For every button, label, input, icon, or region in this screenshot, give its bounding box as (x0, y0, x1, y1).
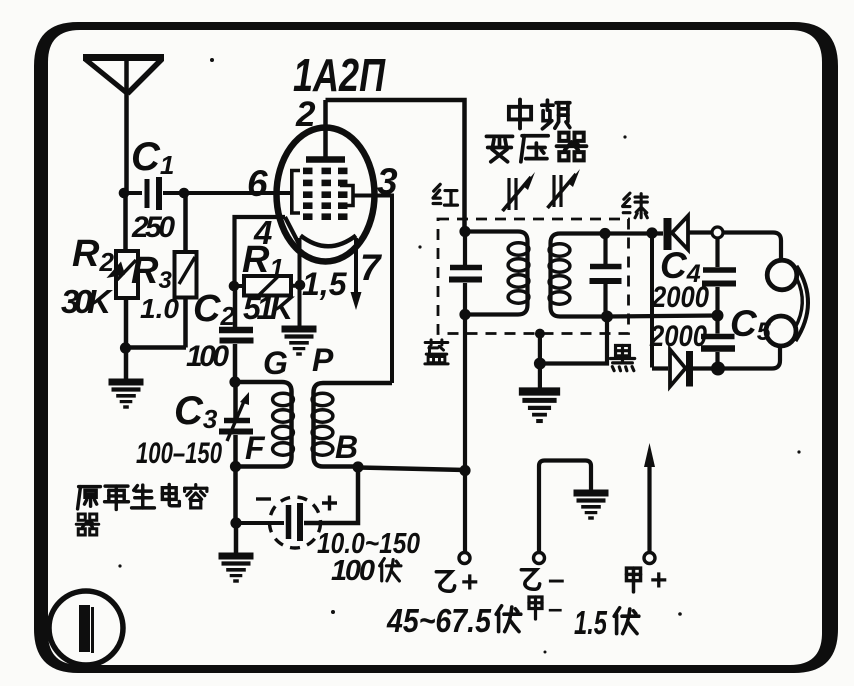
svg-text:R1: R1 (242, 239, 284, 283)
svg-text:30K: 30K (61, 283, 113, 320)
wire grid pin 6 (184, 191, 292, 195)
wire detector top rail (605, 231, 663, 235)
label 100V electrolytic (331, 555, 401, 587)
headphones (766, 260, 808, 346)
label green lead (623, 193, 648, 218)
svg-text:2000: 2000 (649, 320, 707, 353)
wire pin 3 lead (353, 196, 392, 384)
svg-text:R2: R2 (72, 233, 114, 277)
svg-text:1.5: 1.5 (574, 604, 607, 641)
label A+ terminal (626, 568, 640, 592)
wire ground stem electrolytic (234, 523, 239, 553)
svg-text:100: 100 (331, 555, 375, 587)
wire C1 right lead (163, 191, 184, 195)
label B+ terminal (436, 572, 454, 591)
wire C3 bottom lead (233, 435, 238, 467)
label A- terminal (529, 597, 542, 619)
svg-text:100–150: 100–150 (136, 437, 222, 470)
terminal A+ (644, 553, 655, 564)
label black lead (610, 345, 634, 370)
capacitor electrolytic (256, 496, 337, 549)
wire anode pin 2 lead (323, 100, 328, 160)
tube U1 envelope (277, 128, 375, 262)
svg-text:1А2П: 1А2П (293, 49, 386, 101)
label bianyaqi IF text (486, 133, 586, 162)
inductor L2 P-B coil (312, 383, 392, 467)
node junction C1 right (179, 188, 190, 199)
wire pin 4 diagonal (285, 217, 300, 245)
svg-text:C3: C3 (174, 389, 218, 434)
node junction below R2 (120, 342, 131, 353)
trimmer arrow left (503, 172, 536, 211)
svg-text:100: 100 (186, 340, 229, 373)
wire electrolytic right lead (304, 467, 358, 523)
wire R2-R3 bottom link (126, 345, 187, 350)
capacitor C1 (147, 177, 159, 210)
node junction at C1 left (119, 188, 130, 199)
capacitor C3 variable (219, 392, 253, 441)
terminal B- (534, 553, 545, 564)
wire F junction down (233, 467, 238, 524)
inductor L1 G-F coil (236, 382, 294, 467)
tube grid bracket pin 6 (292, 171, 300, 214)
ground B- (574, 493, 609, 518)
resistor R2 (107, 251, 139, 298)
inductor IF primary coil (465, 232, 529, 315)
node junction C3 bottom (230, 461, 241, 472)
svg-text:–: – (548, 563, 565, 596)
resistor R1 (234, 276, 300, 296)
wire ground stem pin 1,5 (298, 285, 302, 326)
node junction IF primary bottom (459, 309, 470, 320)
wire ground stem secondary (538, 364, 542, 389)
svg-text:+: + (650, 564, 668, 597)
wire detector left branch (650, 233, 654, 368)
label fu 1.5V (614, 608, 639, 634)
label fu 45-67.5V (496, 606, 521, 632)
label zhongpin IF text (509, 100, 570, 129)
ground below electrolytic (219, 556, 254, 581)
svg-text:R3: R3 (131, 250, 172, 294)
wire B- terminal (539, 461, 591, 553)
node junction C3 top (229, 376, 240, 387)
capacitor IF secondary (590, 234, 622, 317)
node junction detector left (646, 227, 657, 238)
wire pin 7 arrow (351, 238, 362, 310)
tube grid dashes (303, 168, 348, 220)
wire middle rail (607, 316, 718, 317)
wire antenna mast (124, 59, 129, 193)
diode D1 (668, 216, 713, 250)
node R1 right junction (295, 280, 306, 291)
wire pin 4 to R1 (235, 217, 286, 286)
node junction electrolytic left (230, 517, 241, 528)
IF transformer dashed box (438, 219, 629, 334)
wire to phones bottom (718, 347, 780, 369)
wire pin 1,5 lead (298, 238, 302, 285)
ground IF secondary (519, 392, 560, 422)
figure number circle (49, 591, 123, 665)
svg-text:250: 250 (131, 211, 175, 244)
svg-text:6: 6 (247, 163, 268, 204)
capacitor IF primary (449, 232, 482, 315)
inductor IF secondary coil (549, 234, 607, 317)
svg-text:51K: 51K (243, 290, 296, 326)
node junction on dashed edge (535, 329, 545, 339)
label regeneration capacitor text (76, 485, 207, 535)
wire to phones top (723, 233, 781, 262)
svg-text:–: – (548, 593, 562, 623)
node junction B (352, 461, 363, 472)
wire R2 bottom lead (124, 298, 129, 348)
ground below R2 (109, 382, 144, 407)
wire B to supply rail (358, 468, 465, 471)
tube grid bracket pin 3 (340, 186, 353, 206)
node junction IF secondary top (599, 228, 610, 239)
svg-text:1,5: 1,5 (302, 266, 348, 302)
capacitor C2 (219, 330, 254, 341)
node junction IF primary top (459, 226, 470, 237)
ground below pin 1,5 (282, 329, 317, 354)
wire anode to IF primary (326, 100, 465, 232)
node R1 left junction (229, 281, 240, 292)
trimmer arrow right (548, 169, 581, 208)
wire IF primary down to B+ (463, 315, 467, 553)
wire C1 left lead (124, 191, 142, 195)
node junction C4 mid (712, 310, 724, 322)
label B- terminal (521, 570, 539, 589)
tube filament arc (301, 236, 357, 247)
svg-text:1.0: 1.0 (140, 293, 179, 324)
wire ground stem (124, 348, 129, 379)
terminal B+ (459, 553, 470, 564)
wire C2 bottom lead (233, 344, 238, 382)
label blue lead (425, 340, 448, 364)
svg-text:G: G (263, 345, 288, 381)
svg-text:45~67.5: 45~67.5 (386, 602, 491, 639)
svg-text:B: B (335, 429, 358, 465)
svg-text:C1: C1 (131, 135, 174, 180)
node connector top corner (712, 227, 723, 238)
wire R3 top lead (183, 193, 188, 252)
wire A+ arrow (644, 443, 655, 552)
svg-text:2000: 2000 (651, 281, 709, 314)
svg-text:F: F (245, 430, 266, 466)
node junction B+ rail (459, 465, 470, 476)
node junction IF secondary bottom (601, 311, 613, 323)
capacitor C4 (702, 238, 736, 316)
node junction secondary ground (534, 358, 546, 370)
diode D2 (652, 350, 719, 387)
label red lead (433, 184, 457, 205)
tube anode plate bar (306, 156, 345, 163)
node junction D2 right (711, 362, 725, 376)
wire C2 top lead (233, 286, 238, 327)
svg-text:2: 2 (295, 95, 316, 134)
svg-text:C2: C2 (193, 288, 235, 331)
wire C3 top lead (233, 382, 238, 418)
wire electrolytic left lead (236, 521, 284, 525)
svg-text:7: 7 (360, 247, 383, 288)
scan speckles (118, 58, 800, 654)
wire R2 top lead (123, 193, 128, 251)
svg-text:+: + (461, 566, 479, 599)
resistor R3 (175, 252, 197, 298)
capacitor C5 lower 2000 (701, 316, 735, 369)
wire R3 bottom lead (183, 298, 188, 348)
wire secondary return U (540, 317, 607, 364)
antenna (83, 58, 164, 94)
svg-text:P: P (312, 342, 334, 378)
